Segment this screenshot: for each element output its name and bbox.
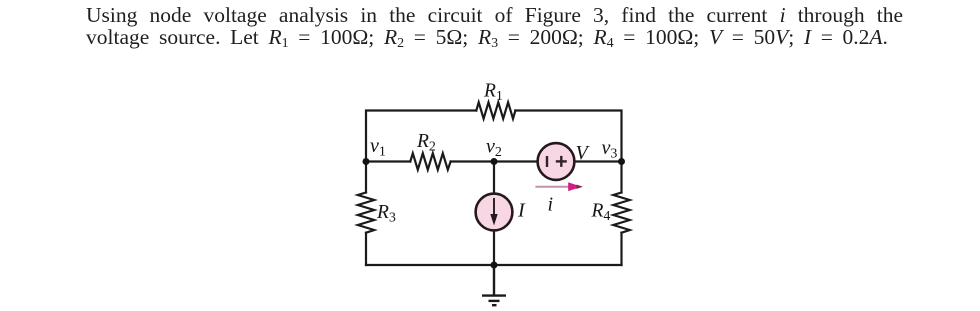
resistor R1: [476, 102, 515, 118]
node v3 junction dot: [618, 158, 625, 165]
node v2 junction dot: [491, 158, 498, 165]
wire bottom rail: [366, 264, 622, 266]
wire R4 to bottom rail: [620, 233, 622, 265]
svg-text:R3: R3: [376, 202, 396, 225]
voltage source V: [538, 143, 575, 180]
current source I: [476, 194, 513, 231]
svg-text:R2: R2: [416, 131, 436, 154]
wire v2 to voltage source: [494, 160, 538, 162]
wire top-left segment (top rail left of R1): [366, 111, 476, 162]
wire v3 down to R4: [620, 162, 622, 193]
wire R3 to bottom rail: [365, 233, 367, 265]
resistor R2: [410, 153, 450, 169]
wire R2 to v2: [451, 160, 494, 162]
wire voltage source to v3: [575, 160, 622, 162]
resistor R4: [613, 193, 629, 233]
svg-text:R4: R4: [591, 201, 611, 224]
wire v1 to R2: [366, 160, 410, 162]
problem statement paragraph: [86, 4, 903, 48]
ground junction dot: [491, 262, 498, 269]
wire current source to bottom rail: [493, 231, 495, 266]
resistor R3: [358, 193, 374, 233]
svg-text:v1: v1: [370, 135, 386, 159]
wire v1 down to R3: [365, 162, 367, 193]
svg-text:R1: R1: [483, 81, 503, 104]
current arrow i: [535, 182, 583, 191]
wire v2 down to current source: [493, 162, 495, 194]
wire top rail right of R1: [515, 111, 621, 162]
svg-text:v3: v3: [602, 137, 618, 161]
svg-text:i: i: [548, 194, 554, 216]
svg-text:v2: v2: [486, 136, 502, 160]
ground: [482, 265, 506, 305]
node v1 junction dot: [363, 158, 370, 165]
svg-text:I: I: [517, 200, 526, 222]
